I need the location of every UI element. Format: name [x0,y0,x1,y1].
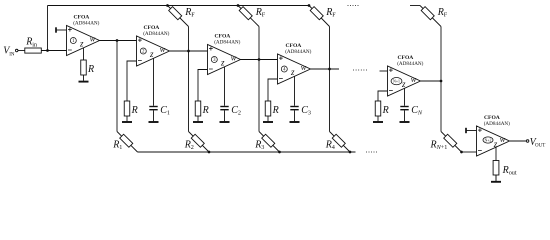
svg-text:CFOA: CFOA [484,115,500,121]
capacitor C2 of U3 [220,105,241,117]
wire top rail right segment [410,5,420,7]
svg-text:(AD844AN): (AD844AN) [73,20,99,27]
wire RF 1 down to stage output node [188,27,190,52]
output terminal VOUT [526,137,545,149]
resistor R of U3 [195,101,208,116]
op-amp U4 CFOA AD844AN stage 4 [278,43,312,84]
wire U6 output to VOUT terminal [510,140,527,142]
svg-text:(AD844AN): (AD844AN) [143,30,169,37]
svg-text:CFOA: CFOA [286,43,302,49]
node RN+1 joins bottom rail [460,151,463,154]
resistor R of U5 [375,101,388,116]
svg-text:OUT: OUT [535,143,545,148]
ground under U1 R [79,75,89,82]
resistor Rout [493,161,517,177]
wire top feedback rail [48,5,310,7]
ground under C1 [149,110,159,122]
wire RF 4 down to stage output node [440,27,442,82]
wire U1 output to U2 [100,40,137,42]
op-amp U1 CFOA AD844AN stage 1 [67,14,100,55]
wire stage 4 output down to R4 [329,69,331,132]
ground under CN [400,110,410,122]
svg-text:z: z [493,139,498,149]
svg-text:w: w [90,35,96,44]
resistor R of U1 [81,60,94,75]
wire U5 inverting input down to R [378,91,388,101]
wire Rin to U1 inverting input [41,50,66,52]
node U5 output junction [440,80,443,83]
wire stage 3 output down to R3 [258,60,260,132]
op-amp U6 CFOA AD844AN stage N+2 [477,115,511,156]
bottom rail continuation dots [366,152,377,153]
svg-text:R: R [382,105,389,116]
wire U4 output [311,68,340,70]
svg-text:CFOA: CFOA [74,14,90,20]
wire U3 inverting input down to R [198,70,208,102]
ground under C2 [220,110,230,122]
svg-text:(AD844AN): (AD844AN) [484,120,510,127]
capacitor C3 of U4 [290,105,311,117]
svg-text:R: R [272,105,279,116]
node R4 joins bottom rail [349,151,352,154]
op-amp U2 CFOA AD844AN stage 2 [137,25,170,66]
svg-text:R: R [202,105,209,116]
resistor R of U2 [124,101,137,116]
svg-text:w: w [160,45,166,54]
ground under U4 R [263,116,273,122]
svg-text:(AD844AN): (AD844AN) [285,48,311,55]
resistor R4 [325,132,350,153]
op-amp U5 CFOA AD844AN stage N+1 [388,55,424,96]
capacitor CN of U5 [400,105,423,117]
resistor RF feedback from stage output 4 [420,6,448,27]
svg-text:CFOA: CFOA [144,25,160,31]
svg-text:w: w [500,135,506,144]
svg-text:w: w [301,63,307,72]
node top rail junction 2 [237,4,240,7]
svg-text:(AD844AN): (AD844AN) [214,39,240,46]
svg-text:z: z [220,58,225,68]
svg-text:IN: IN [9,52,15,57]
top rail continuation dots [348,5,359,6]
wire U2 inverting input down to R [127,61,137,101]
wire U5 output [421,80,442,82]
resistor R of U4 [265,101,278,116]
wire stage 1 output down to R1 [116,41,118,132]
wire stage 5 output down to RN+1 [440,81,442,132]
resistor R1 [112,132,137,153]
node top rail junction 3 [308,4,311,7]
resistor RF feedback from stage output 1 [168,6,196,27]
wire U2 output to U3 [170,50,208,52]
ground under C3 [290,110,300,122]
node summing junction [46,49,49,52]
wire RF 3 down to stage output node [329,27,331,70]
node top rail junction 1 [166,4,169,7]
signal path continuation dots [353,70,367,71]
svg-text:R: R [87,64,94,75]
pin z of U4 [294,76,296,106]
pin z of U5 [404,88,406,106]
wire U3 output to U4 [241,59,278,61]
wire VIN terminal to Rin [18,50,25,52]
pin z of U2 [153,58,155,106]
node U1 output junction [116,39,119,42]
pin z of U3 [224,67,226,106]
ground bar at U1 noninverting input [56,27,67,32]
wire RF 2 down to stage output node [258,27,260,60]
op-amp U3 CFOA AD844AN stage 3 [208,33,241,74]
pin z of U1 [83,48,85,60]
wire into U5 noninverting input [380,70,388,72]
svg-text:(AD844AN): (AD844AN) [397,60,423,67]
svg-text:R: R [131,105,138,116]
svg-text:w: w [411,75,417,84]
wire U4 inverting input down to R [268,79,278,101]
svg-text:w: w [231,54,237,63]
pin z of U6 [495,147,497,160]
svg-text:CFOA: CFOA [398,55,414,61]
wire summing node to feedback rail [47,6,49,51]
svg-text:N+2: N+2 [485,138,492,142]
ground bar at U6 noninverting input [466,128,477,133]
wire bottom rail into U6 inverting input [462,151,477,153]
resistor R2 [184,132,209,153]
wire stage 2 output down to R2 [188,51,190,132]
ground under U2 R [122,116,132,122]
svg-text:z: z [401,79,406,89]
resistor RN+1 [430,132,462,153]
node R3 joins bottom rail [278,151,281,154]
svg-text:z: z [149,49,154,59]
capacitor C1 of U2 [149,105,170,117]
svg-text:z: z [290,67,295,77]
input terminal VIN [3,46,18,58]
resistor RF feedback from stage output 2 [238,6,266,27]
svg-text:CFOA: CFOA [215,33,231,39]
ground under U3 R [193,116,203,122]
resistor R3 [254,132,279,153]
node R2 joins bottom rail [208,151,211,154]
node U4 output junction [328,68,331,71]
svg-text:z: z [79,39,84,49]
resistor RF feedback from stage output 3 [309,6,336,27]
node U2 output junction [187,50,190,53]
resistor Rin [25,37,42,53]
wire bottom summing rail [138,151,356,153]
svg-text:N+1: N+1 [393,80,400,84]
node U3 output junction [258,58,261,61]
ground under Rout [491,175,501,182]
ground under U5 R [373,116,383,122]
